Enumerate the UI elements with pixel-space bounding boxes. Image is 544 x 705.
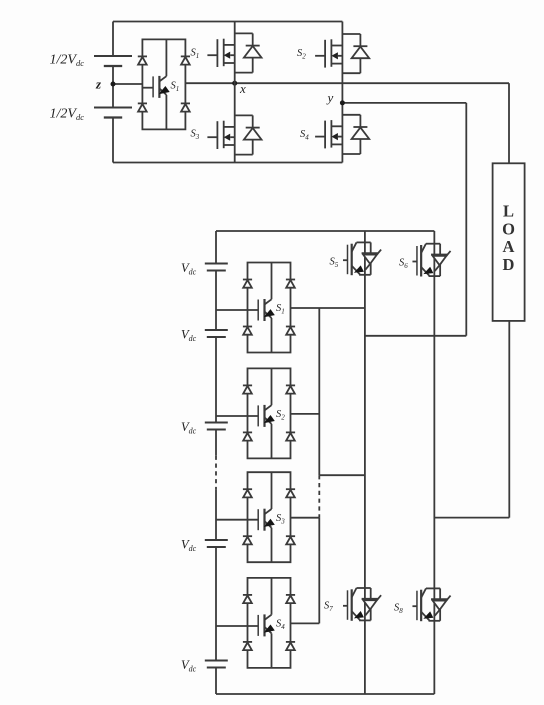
svg-text:z: z [95,77,102,92]
wire bottom section top bus [216,230,434,232]
wire S5-S7 leg [364,231,366,694]
wire gate lead cell top [142,87,153,89]
wire y branch horizontal to S5 leg [365,335,466,337]
wire output bus vertical lower [318,518,320,624]
svg-text:A: A [503,237,515,256]
igbt S5 [343,242,381,275]
svg-text:O: O [502,220,515,239]
svg-text:L: L [503,202,514,221]
wire bottom section bottom bus [216,693,434,695]
wire H-bridge left leg [234,22,236,163]
wire capacitor string seg 7 [215,668,217,695]
mosfet S3 [207,115,261,154]
capacitor C4 Vdc [205,330,228,337]
capacitor C3 Vdc [205,264,228,271]
wire output bus dashed [318,475,320,518]
wire input cell C [216,519,258,521]
label LOAD [502,202,515,275]
wire capacitor string seg 3 [215,337,217,423]
wire output cell C [291,517,320,519]
bidirectional switch cell S1 (top, z-x) [138,39,190,129]
bidirectional switch cell S2 (lower B) [243,368,295,458]
wire left vertical bottom segment [112,118,114,163]
wire x-line from cell to LOAD drop [185,82,509,84]
wire input cell B [216,415,258,417]
bidirectional switch cell S3 (lower C) [243,472,295,562]
node y junction dot [340,100,345,105]
wire LOAD bottom horizontal to S6 leg [434,517,509,519]
wire output cell B [291,413,320,415]
wire output cell A to S5 leg [291,307,365,309]
wire node z to cell [113,83,142,85]
bidirectional switch cell S1 (lower A) [243,263,295,353]
wire y branch vertical [465,103,467,336]
igbt S6 [412,244,450,277]
wire output cell D [291,622,320,624]
capacitor C2 1/2Vdc [94,108,132,118]
svg-text:x: x [239,81,246,96]
node x junction dot [232,81,237,86]
wire capacitor string seg 4 [215,430,217,456]
wire capacitor string seg 5 [215,489,217,540]
capacitor C5 Vdc [205,423,228,430]
LOAD box [493,163,525,321]
wire LOAD bottom vertical [508,321,510,518]
capacitor C7 Vdc [205,661,228,668]
capacitor C1 1/2Vdc [94,56,132,66]
wire input cell D [216,625,258,627]
wire top bus H-bridge [113,21,342,23]
wire capacitor string seg 1 [215,231,217,264]
wire y-line [342,102,466,104]
wire left vertical mid segment through node z [112,66,114,108]
svg-text:D: D [503,255,515,274]
igbt S7 [343,588,381,621]
bidirectional switch cell S4 (lower D) [243,578,295,668]
wire drop to LOAD top [508,83,510,163]
wire H-bridge right leg [341,22,343,163]
wire output bus branch to S5 leg [319,474,365,476]
wire capacitor string dashed segment [215,456,217,490]
svg-text:y: y [326,90,334,105]
wire capacitor string seg 2 [215,271,217,331]
node z junction dot [111,82,116,87]
wire S6-S8 leg [433,231,435,694]
igbt S8 [412,588,450,621]
wire input cell A [216,309,258,311]
wire capacitor string seg 6 [215,547,217,661]
wire bottom bus H-bridge [113,162,342,164]
wire left vertical top segment [112,22,114,57]
mosfet S1 [207,33,261,72]
mosfet S2 [315,34,369,73]
capacitor C6 Vdc [205,540,228,547]
mosfet S4 [315,115,369,154]
wire output bus vertical upper [318,308,320,475]
